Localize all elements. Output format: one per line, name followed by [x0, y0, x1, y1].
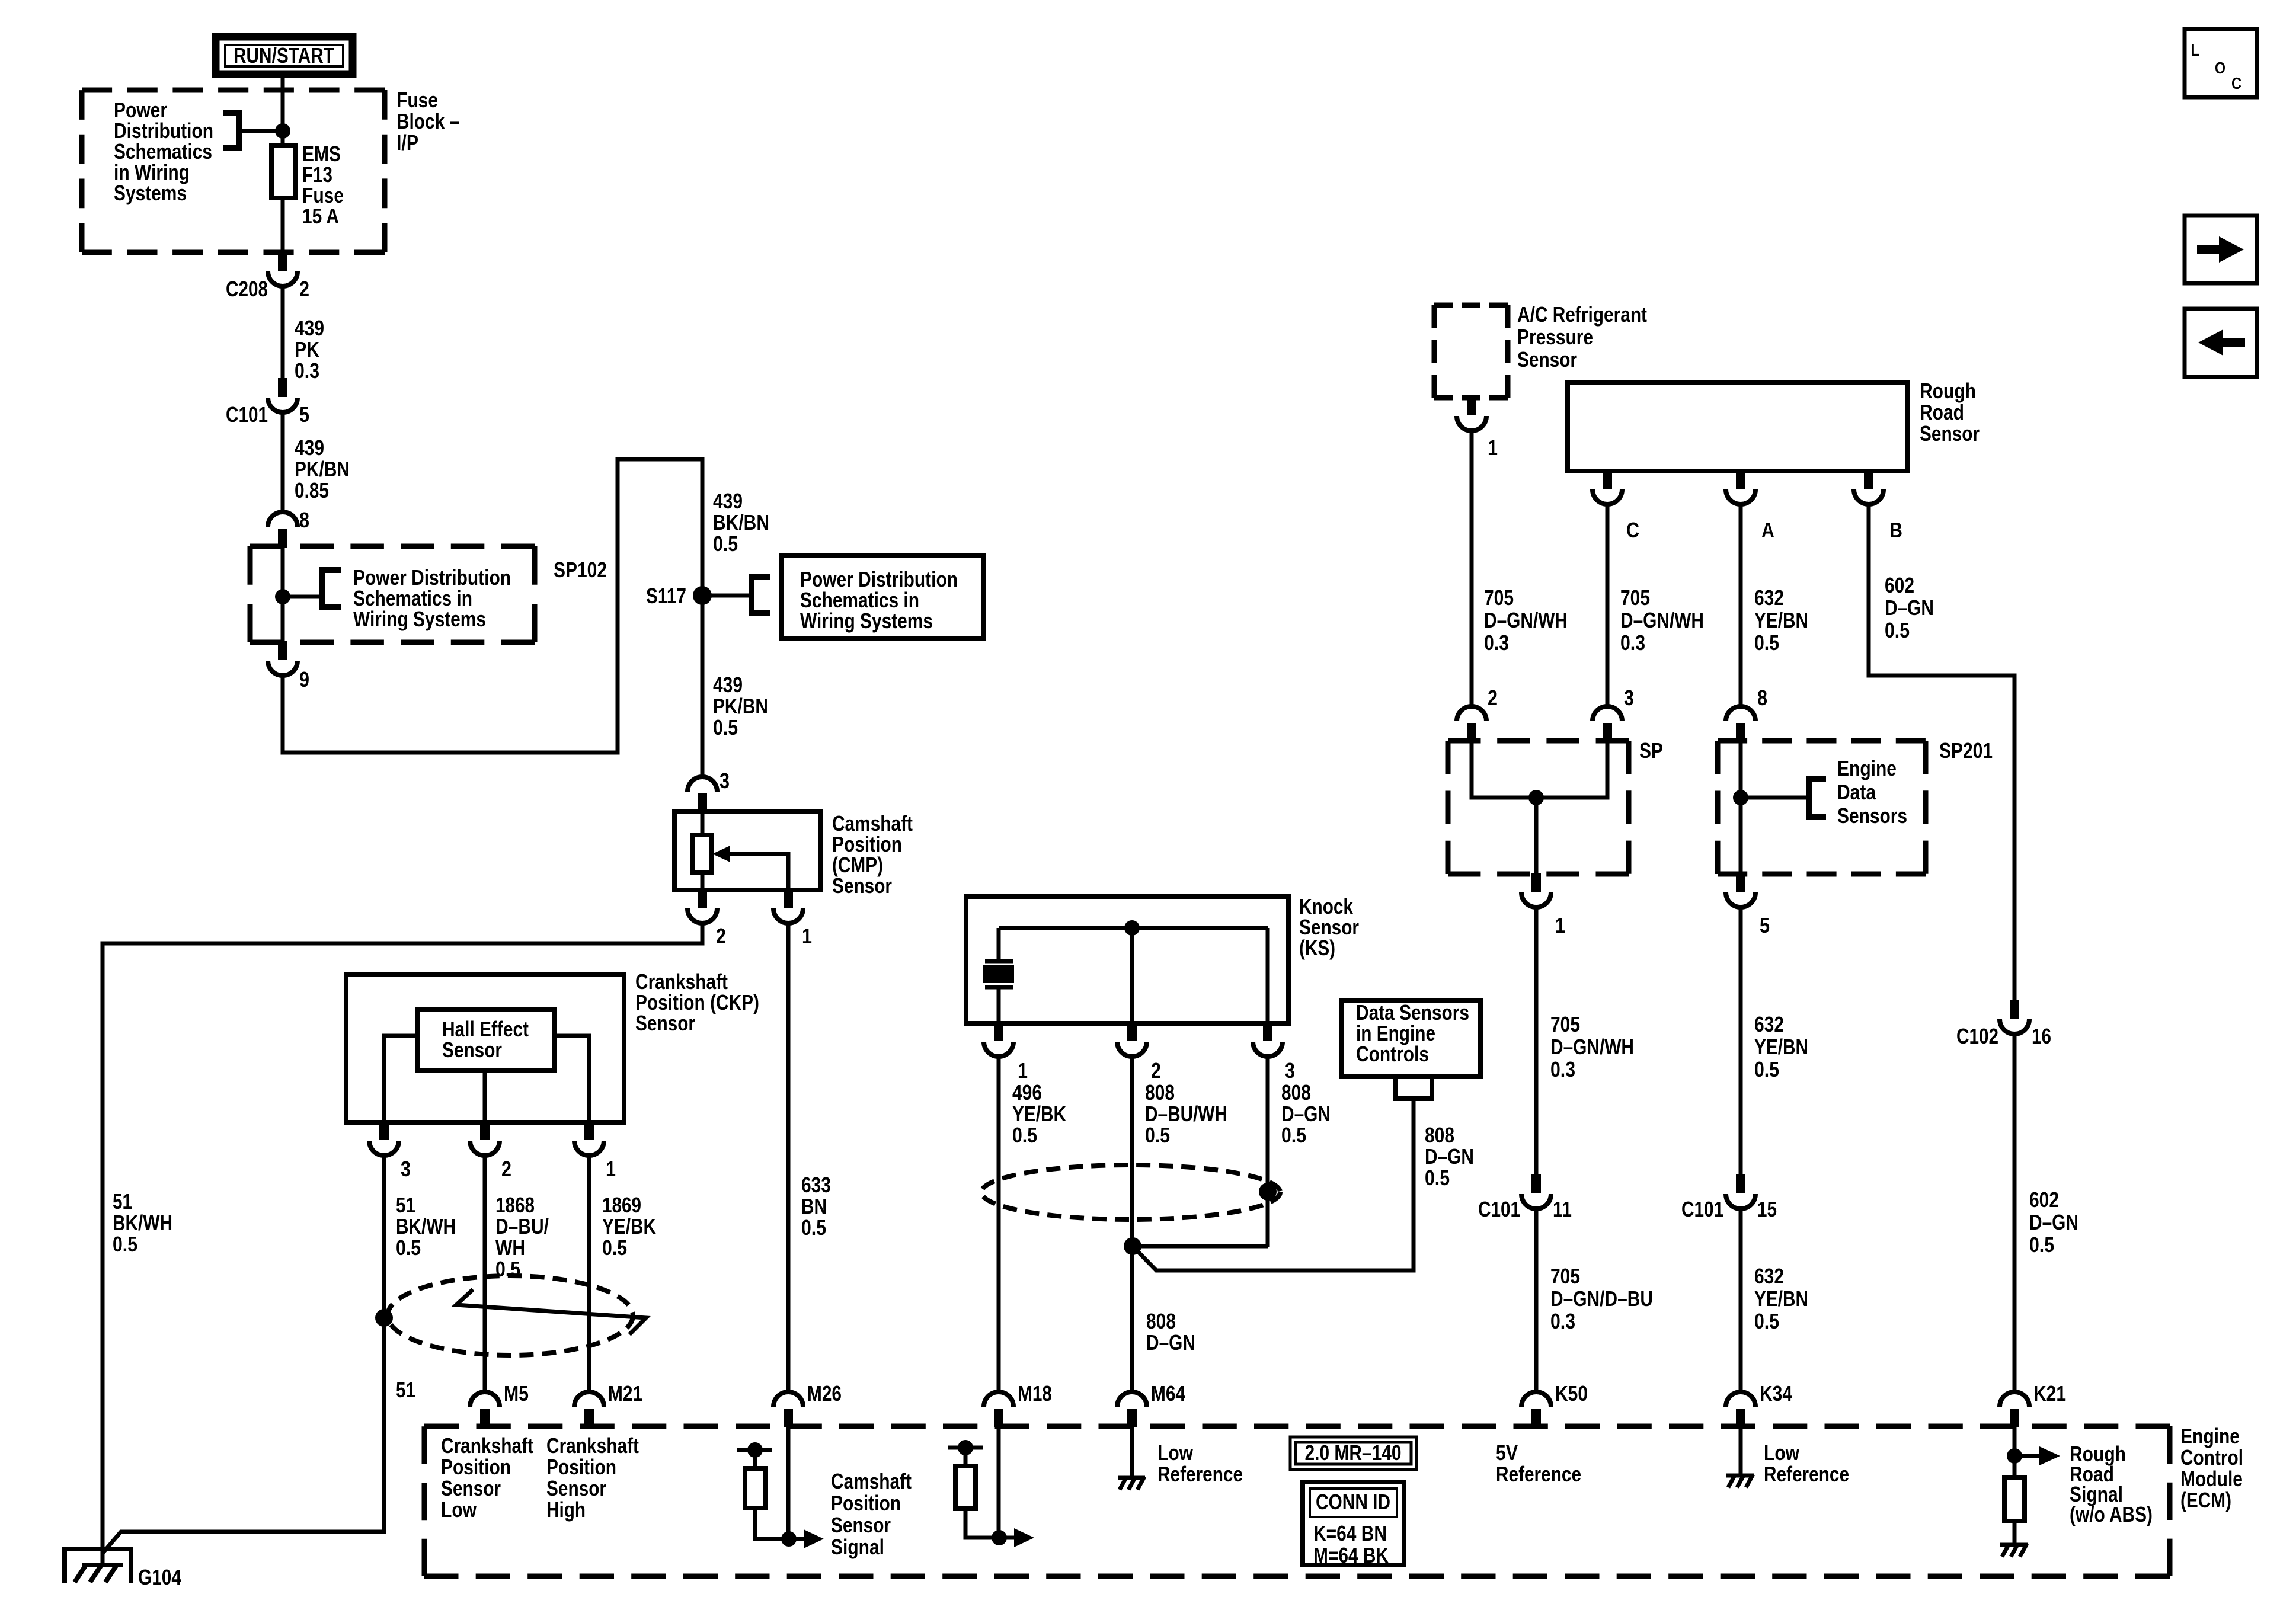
svg-text:D–GN/D–BU: D–GN/D–BU [1550, 1286, 1653, 1311]
wire 496 YE/BK to M18 [997, 1057, 1001, 1392]
svg-text:Rough: Rough [1920, 379, 1976, 403]
wire KS right lead [1266, 928, 1270, 1023]
connector C101 pin 11 [1521, 1174, 1551, 1209]
data sensors note box [1342, 1000, 1480, 1077]
bracket below data sensors box [1396, 1079, 1432, 1099]
connector ECM pin M26 [773, 1392, 803, 1427]
svg-text:3: 3 [720, 769, 730, 793]
svg-text:496: 496 [1012, 1080, 1042, 1105]
svg-text:0.5: 0.5 [1012, 1123, 1037, 1147]
svg-text:0.5: 0.5 [2029, 1233, 2054, 1257]
bracket SP102 note [322, 570, 341, 607]
svg-text:D–BU/: D–BU/ [495, 1214, 549, 1238]
svg-text:2: 2 [1151, 1058, 1161, 1083]
connector ECM pin M18 [984, 1392, 1013, 1427]
svg-text:0.5: 0.5 [602, 1235, 627, 1260]
svg-text:0.5: 0.5 [1754, 1057, 1779, 1081]
fuse EMS F13 15A [271, 145, 295, 198]
svg-text:SP: SP [1639, 738, 1663, 763]
splice S117 [693, 586, 712, 605]
wire M18 internal [997, 1426, 1001, 1538]
svg-text:D–GN: D–GN [1885, 596, 1934, 620]
junction KS internal [1124, 920, 1140, 936]
svg-text:632: 632 [1754, 1264, 1784, 1288]
svg-text:B: B [1889, 518, 1902, 542]
wire rail to resistor [753, 1450, 757, 1468]
connector SP201 pin 8 [1726, 706, 1755, 742]
wire KS internal bus [999, 926, 1268, 930]
resistor ECM K21 [2004, 1478, 2025, 1521]
svg-text:C208: C208 [226, 277, 268, 301]
wire resistor to M18 node [965, 1509, 1000, 1538]
svg-text:K=64 BN: K=64 BN [1313, 1521, 1387, 1545]
wire CMP internal bottom [701, 872, 705, 890]
svg-text:Low: Low [441, 1497, 477, 1522]
wire 633 BN 0.5 to M26 [786, 923, 791, 1392]
svg-text:1: 1 [1488, 436, 1498, 460]
svg-text:0.5: 0.5 [1425, 1166, 1450, 1190]
connector C101 pin 5 [268, 378, 298, 412]
connector CMP pin 3 [687, 777, 717, 812]
wire 705 D-GN/WH to C101 [1534, 908, 1539, 1177]
svg-text:Crankshaft: Crankshaft [441, 1433, 533, 1458]
wire M64 internal [1130, 1426, 1134, 1476]
wire hall left lead [384, 1036, 417, 1122]
splice pack SP dashed box [1448, 741, 1629, 874]
wire K21 internal [2013, 1426, 2017, 1478]
wire resistor to M26 node [755, 1508, 789, 1539]
svg-text:2: 2 [299, 277, 309, 301]
svg-text:A/C Refrigerant: A/C Refrigerant [1517, 302, 1647, 327]
wire SP out [1534, 798, 1539, 874]
arrow camshaft position sensor signal [789, 1537, 804, 1541]
svg-text:D–GN: D–GN [2029, 1210, 2078, 1234]
wire hall middle lead [483, 1071, 487, 1122]
wire hall right lead [555, 1036, 589, 1122]
connector ECM pin M64 [1117, 1392, 1147, 1427]
svg-text:Sensors: Sensors [1837, 804, 1907, 828]
crankshaft position CKP sensor box [346, 975, 624, 1122]
svg-text:M21: M21 [608, 1381, 642, 1406]
svg-text:51: 51 [396, 1378, 415, 1402]
connector KS pin 1 [984, 1022, 1013, 1057]
svg-text:C101: C101 [226, 402, 268, 427]
svg-text:Block –: Block – [396, 109, 459, 133]
connector C102 pin 16 [2000, 1000, 2029, 1034]
svg-text:0.3: 0.3 [295, 359, 319, 383]
svg-text:Road: Road [1920, 400, 1964, 424]
svg-text:YE/BN: YE/BN [1754, 608, 1808, 632]
svg-text:1868: 1868 [495, 1193, 535, 1217]
conn id box [1303, 1482, 1404, 1565]
connector SP pin 1 [1521, 873, 1551, 907]
svg-text:2: 2 [716, 924, 726, 948]
arrow rough road signal [2014, 1454, 2039, 1458]
svg-text:439: 439 [713, 673, 743, 697]
svg-text:2: 2 [1488, 686, 1498, 710]
svg-text:0.3: 0.3 [1550, 1309, 1575, 1333]
svg-text:439: 439 [295, 316, 324, 340]
knock sensor KS box [966, 897, 1288, 1023]
piezo element [985, 959, 1013, 964]
svg-text:602: 602 [2029, 1188, 2059, 1212]
RUN/START hot-in-run box [216, 37, 353, 74]
svg-text:15: 15 [1757, 1197, 1777, 1221]
svg-text:YE/BK: YE/BK [602, 1214, 656, 1238]
svg-text:808: 808 [1146, 1309, 1176, 1333]
svg-text:C102: C102 [1956, 1024, 1998, 1048]
wire SP internal [1472, 741, 1607, 798]
wire 602 D-GN to K21 [2013, 1034, 2017, 1392]
connector CKP pin 3 [369, 1121, 399, 1156]
svg-text:PK/BN: PK/BN [713, 694, 768, 718]
svg-text:Reference: Reference [1764, 1462, 1849, 1486]
svg-text:Engine: Engine [2180, 1424, 2240, 1448]
connector CMP pin 2 [687, 889, 717, 923]
junction K21 signal [2007, 1448, 2022, 1464]
svg-text:Sensor: Sensor [442, 1038, 502, 1062]
junction M26 rail [747, 1442, 763, 1458]
svg-text:C101: C101 [1478, 1197, 1520, 1221]
splice pack SP102 dashed box [250, 546, 535, 642]
wire 632 YE/BN from RRS A [1739, 505, 1743, 706]
wire SP201 to note bracket [1741, 796, 1809, 800]
wire 808 to M64 [1130, 1057, 1134, 1392]
svg-text:Crankshaft: Crankshaft [546, 1433, 639, 1458]
svg-text:705: 705 [1484, 585, 1514, 610]
svg-text:D–GN: D–GN [1425, 1144, 1474, 1169]
connector SP201 pin 5 [1726, 873, 1755, 907]
svg-text:(ECM): (ECM) [2180, 1488, 2231, 1512]
wire KS piezo bottom [997, 987, 1001, 1023]
wire 808 D-GN KS pin3 [1266, 1058, 1270, 1247]
A/C refrigerant pressure sensor dashed box [1434, 305, 1508, 398]
connector ECM pin K34 [1726, 1392, 1755, 1427]
junction M18 rail [958, 1440, 973, 1455]
svg-text:Wiring Systems: Wiring Systems [353, 607, 486, 631]
connector C101 pin 15 [1726, 1174, 1755, 1209]
svg-text:YE/BK: YE/BK [1012, 1102, 1066, 1126]
wire 705 D-GN/WH from A/C [1470, 432, 1474, 706]
svg-text:Data: Data [1837, 780, 1876, 804]
svg-text:633: 633 [801, 1173, 831, 1197]
svg-text:Control: Control [2180, 1445, 2243, 1470]
svg-text:Sensor: Sensor [832, 873, 892, 898]
wire 808 D-GN from data sensors [1133, 1099, 1414, 1270]
svg-text:Systems: Systems [114, 181, 187, 205]
wire RUN/START to fuse EMS F13 [281, 78, 285, 146]
svg-text:1: 1 [1555, 913, 1565, 937]
connector SP102 pin 8 [268, 512, 298, 548]
svg-text:Fuse: Fuse [396, 88, 438, 112]
svg-text:5V: 5V [1496, 1441, 1518, 1465]
note box Power Distribution Schematics in Wiring Systems [782, 556, 984, 638]
svg-text:Pressure: Pressure [1517, 325, 1593, 349]
ground K21 [2000, 1544, 2028, 1557]
junction SP102 [275, 589, 290, 604]
svg-text:Position: Position [441, 1455, 511, 1479]
svg-text:0.5: 0.5 [1145, 1123, 1170, 1147]
svg-text:0.5: 0.5 [713, 715, 738, 740]
svg-text:YE/BN: YE/BN [1754, 1286, 1808, 1311]
svg-text:632: 632 [1754, 1012, 1784, 1036]
svg-text:Position: Position [546, 1455, 616, 1479]
bracket SP201 note [1809, 779, 1826, 817]
junction shield to 51 [375, 1309, 393, 1327]
svg-text:0.3: 0.3 [1484, 630, 1509, 655]
svg-text:PK: PK [295, 337, 319, 361]
svg-text:D–GN: D–GN [1281, 1102, 1331, 1126]
svg-text:C101: C101 [1681, 1197, 1723, 1221]
svg-text:Sensor: Sensor [831, 1513, 891, 1537]
svg-text:PK/BN: PK/BN [295, 457, 350, 481]
svg-text:808: 808 [1425, 1123, 1454, 1147]
svg-text:705: 705 [1620, 585, 1650, 610]
bracket to power distribution note [223, 113, 239, 148]
svg-text:808: 808 [1145, 1080, 1175, 1105]
svg-text:632: 632 [1754, 585, 1784, 610]
svg-text:BN: BN [801, 1194, 827, 1218]
svg-text:1869: 1869 [602, 1193, 641, 1217]
svg-text:602: 602 [1885, 573, 1914, 597]
svg-text:0.5: 0.5 [113, 1232, 137, 1256]
connector SP pin 3 [1593, 706, 1622, 742]
arrow CMP wiper [729, 854, 788, 890]
svg-text:0.3: 0.3 [1620, 630, 1645, 655]
junction shield 808 [1259, 1183, 1277, 1201]
connector KS pin 3 [1253, 1022, 1283, 1057]
bracket S117 note [752, 577, 770, 613]
junction SP [1528, 790, 1544, 805]
svg-text:CONN ID: CONN ID [1316, 1490, 1390, 1514]
svg-text:D–BU/WH: D–BU/WH [1145, 1102, 1227, 1126]
svg-text:L: L [2191, 41, 2199, 59]
svg-text:Controls: Controls [1356, 1042, 1429, 1066]
svg-text:I/P: I/P [396, 130, 418, 155]
svg-text:Reference: Reference [1157, 1462, 1243, 1486]
svg-text:(w/o ABS): (w/o ABS) [2070, 1502, 2153, 1526]
left arrow box [2185, 309, 2257, 377]
svg-text:M26: M26 [807, 1381, 842, 1406]
wire 632 YE/BN to C101 [1739, 908, 1743, 1177]
wire 1869 YE/BK to M21 [587, 1156, 591, 1392]
svg-text:5: 5 [299, 402, 309, 427]
svg-text:Engine: Engine [1837, 756, 1897, 780]
wire 632 YE/BN to K34 [1739, 1209, 1743, 1392]
svg-text:9: 9 [299, 667, 309, 692]
svg-text:K21: K21 [2033, 1381, 2066, 1406]
svg-text:0.5: 0.5 [801, 1215, 826, 1240]
junction on fuse feed [275, 123, 290, 139]
svg-text:M18: M18 [1018, 1381, 1052, 1406]
resistor ECM M18 [955, 1466, 976, 1509]
svg-text:D–GN: D–GN [1146, 1330, 1195, 1355]
camshaft position CMP sensor box [674, 811, 821, 890]
wire through SP102 [281, 546, 285, 642]
svg-text:O: O [2215, 59, 2225, 77]
svg-text:C: C [2231, 74, 2241, 92]
wire KS pin3 join [1133, 1244, 1268, 1249]
junction SP201 [1733, 790, 1748, 805]
svg-text:0.85: 0.85 [295, 478, 329, 502]
svg-text:3: 3 [1285, 1058, 1295, 1083]
svg-text:RUN/START: RUN/START [234, 43, 334, 68]
svg-text:51: 51 [113, 1189, 132, 1214]
wire 51 BK/WH CMP pin2 to G104 [103, 924, 702, 1565]
right arrow box [2185, 216, 2257, 283]
svg-text:0.5: 0.5 [1754, 1309, 1779, 1333]
wire SP102 to note bracket [283, 595, 322, 599]
svg-text:M64: M64 [1151, 1381, 1185, 1406]
svg-text:YE/BN: YE/BN [1754, 1035, 1808, 1059]
svg-text:Camshaft: Camshaft [831, 1469, 912, 1493]
svg-text:SP201: SP201 [1939, 738, 1993, 763]
engine control module ECM dashed box [424, 1426, 2170, 1576]
rail bar M18 resistor [948, 1446, 983, 1450]
svg-text:D–GN/WH: D–GN/WH [1550, 1035, 1634, 1059]
svg-text:K34: K34 [1760, 1381, 1792, 1406]
wire SP102 pin 9 to S117 to CMP [283, 459, 702, 777]
fuse block I/P dashed box [82, 90, 385, 252]
svg-text:51: 51 [396, 1193, 415, 1217]
connector KS pin 2 [1117, 1022, 1147, 1057]
connector A/C pin 1 [1457, 396, 1486, 431]
svg-text:Sensor: Sensor [441, 1476, 501, 1500]
svg-text:3: 3 [1624, 686, 1634, 710]
wire bracket to fuse feed [239, 129, 279, 133]
connector CKP pin 2 [470, 1121, 500, 1156]
svg-text:808: 808 [1281, 1080, 1311, 1105]
wire KS middle lead [1130, 928, 1134, 1023]
svg-text:11: 11 [1553, 1197, 1572, 1221]
resistor ECM M26 [745, 1468, 765, 1508]
wire K21 resistor to ground [2013, 1521, 2017, 1543]
svg-text:Reference: Reference [1496, 1462, 1581, 1486]
connector RRS pin A [1726, 470, 1755, 504]
rail bar M26 resistor [737, 1448, 772, 1452]
wire 51 BK/WH CKP pin3 to G104 [103, 1156, 384, 1553]
svg-text:0.5: 0.5 [1885, 618, 1910, 642]
wire rail to resistor [964, 1448, 968, 1466]
svg-text:0.5: 0.5 [713, 532, 738, 556]
wire SP201 internal [1739, 741, 1743, 874]
svg-text:1: 1 [606, 1157, 616, 1181]
svg-text:(KS): (KS) [1299, 936, 1335, 960]
LOC legend box [2185, 29, 2257, 97]
svg-text:BK/WH: BK/WH [396, 1214, 456, 1238]
svg-text:Module: Module [2180, 1467, 2243, 1491]
svg-text:M=64 BK: M=64 BK [1313, 1543, 1389, 1567]
twisted pair ellipse CKP [388, 1276, 633, 1355]
ground G104 [65, 1549, 131, 1583]
svg-text:BK/WH: BK/WH [113, 1211, 172, 1235]
svg-text:K50: K50 [1555, 1381, 1588, 1406]
wire CMP internal top [701, 811, 705, 835]
svg-text:15 A: 15 A [302, 204, 339, 228]
ground M64 low reference [1118, 1477, 1145, 1490]
svg-text:D–GN/WH: D–GN/WH [1484, 608, 1568, 632]
wire 439 PK 0.3 [281, 287, 285, 381]
svg-text:Sensor: Sensor [1517, 347, 1577, 372]
connector ECM pin M21 [574, 1392, 604, 1427]
arrow knock sensor signal [999, 1536, 1015, 1540]
svg-text:2.0 MR–140: 2.0 MR–140 [1305, 1441, 1402, 1465]
svg-text:3: 3 [401, 1157, 411, 1181]
svg-text:Sensor: Sensor [546, 1476, 606, 1500]
connector ECM pin K50 [1521, 1392, 1551, 1427]
svg-text:0.3: 0.3 [1550, 1057, 1575, 1081]
svg-text:BK/BN: BK/BN [713, 510, 769, 534]
connector CMP pin 1 [773, 889, 803, 923]
twisted pair ellipse KS [981, 1165, 1280, 1219]
connector ECM pin K21 [2000, 1392, 2029, 1427]
connector CKP pin 1 [574, 1121, 604, 1156]
svg-text:1: 1 [802, 924, 812, 948]
tag box 2.0 MR-140 [1290, 1437, 1416, 1470]
connector RRS pin B [1854, 470, 1884, 504]
svg-text:A: A [1761, 518, 1774, 542]
svg-text:WH: WH [495, 1235, 525, 1260]
wire S117 to note bracket [702, 594, 752, 598]
wire 602 D-GN from RRS B [1869, 505, 2014, 1003]
connector SP102 pin 9 [268, 641, 298, 676]
svg-text:5: 5 [1760, 913, 1770, 937]
wire fuse to C208 [281, 198, 285, 255]
hall effect sensor box [417, 1010, 555, 1071]
svg-text:439: 439 [713, 489, 743, 513]
svg-text:SP102: SP102 [554, 558, 607, 582]
svg-text:2: 2 [501, 1157, 511, 1181]
wire 705 D-GN/WH from RRS C [1606, 505, 1610, 706]
svg-text:8: 8 [299, 508, 309, 532]
svg-text:Signal: Signal [831, 1535, 884, 1559]
connector SP pin 2 [1457, 706, 1486, 742]
wire 705 D-GN/D-BU to K50 [1534, 1209, 1539, 1392]
svg-text:0.5: 0.5 [1281, 1123, 1306, 1147]
svg-text:1: 1 [1018, 1058, 1028, 1083]
svg-text:8: 8 [1757, 686, 1767, 710]
svg-text:C: C [1626, 518, 1639, 542]
svg-text:High: High [546, 1497, 586, 1522]
connector RRS pin C [1593, 470, 1622, 504]
svg-text:705: 705 [1550, 1264, 1580, 1288]
svg-text:Low: Low [1764, 1441, 1800, 1465]
junction M26 signal [781, 1531, 797, 1547]
junction M18 signal [992, 1530, 1007, 1545]
svg-text:Low: Low [1157, 1441, 1194, 1465]
svg-text:16: 16 [2032, 1024, 2051, 1048]
svg-text:S117: S117 [646, 584, 686, 608]
resistor CMP internal [693, 835, 712, 872]
wire K34 internal [1739, 1426, 1743, 1474]
twist symbol CKP [456, 1289, 646, 1334]
svg-text:Position: Position [831, 1491, 901, 1515]
junction 808 D-GN [1124, 1237, 1141, 1255]
splice pack SP201 dashed box [1718, 741, 1926, 874]
ground K34 low reference [1726, 1474, 1754, 1487]
wire 439 PK/BN 0.85 [281, 414, 285, 512]
svg-text:Sensor: Sensor [1920, 421, 1980, 446]
svg-text:D–GN/WH: D–GN/WH [1620, 608, 1704, 632]
wire KS piezo top [997, 928, 1001, 961]
svg-text:439: 439 [295, 436, 324, 460]
rough road sensor box [1568, 383, 1908, 471]
svg-text:705: 705 [1550, 1012, 1580, 1036]
svg-text:0.5: 0.5 [396, 1235, 421, 1260]
svg-text:G104: G104 [138, 1565, 181, 1589]
svg-text:M5: M5 [504, 1381, 529, 1406]
wire 1868 D-BU/WH to M5 [483, 1156, 487, 1392]
